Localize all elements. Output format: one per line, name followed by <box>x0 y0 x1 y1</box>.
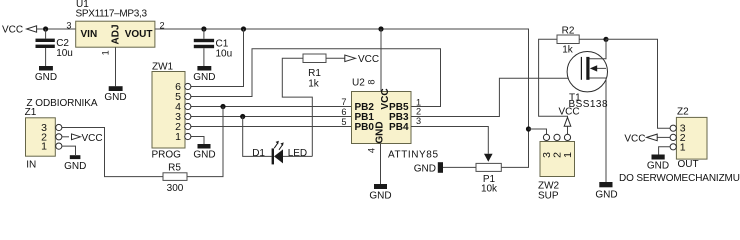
svg-text:SUP: SUP <box>538 191 559 201</box>
node ZW1 pin6 VCC junction <box>241 26 246 31</box>
svg-text:VCC: VCC <box>82 133 103 144</box>
connector ZW1 PROG <box>152 62 186 161</box>
node R5 junction <box>220 104 225 109</box>
wire R1 left lead to LED anode <box>282 58 312 156</box>
resistor R5 <box>163 163 187 195</box>
capacitor C1 <box>194 39 232 60</box>
pin circles Z1 <box>56 124 62 149</box>
svg-text:VCC: VCC <box>2 25 23 36</box>
node U2 pin8 junction <box>378 26 383 31</box>
net label VCC at U1 VIN <box>2 25 37 36</box>
svg-text:GND: GND <box>193 72 215 83</box>
wire R1 right lead <box>326 57 345 59</box>
svg-text:2: 2 <box>416 107 421 117</box>
svg-text:10u: 10u <box>216 49 233 60</box>
svg-text:GND: GND <box>35 72 57 83</box>
IC U2 ATTINY85 <box>352 78 439 161</box>
wiper arrow P1 <box>484 154 493 162</box>
net label VCC at Z2 <box>624 133 657 144</box>
wire Z2 pin1 to ground <box>659 147 671 155</box>
svg-text:R1: R1 <box>308 68 321 79</box>
svg-text:1: 1 <box>41 141 47 153</box>
ground C1 <box>193 66 215 83</box>
svg-text:R5: R5 <box>168 163 181 174</box>
wire ZW1 pin1 to ground <box>191 137 205 145</box>
pin circles Z2 <box>670 125 676 150</box>
ground T1 source <box>595 182 617 201</box>
svg-text:1k: 1k <box>562 45 574 56</box>
svg-text:BSS138: BSS138 <box>569 99 608 110</box>
svg-text:1k: 1k <box>308 79 320 90</box>
svg-text:GND: GND <box>595 190 617 201</box>
node LED junction <box>240 114 245 119</box>
svg-text:ZW1: ZW1 <box>152 62 174 73</box>
svg-text:7: 7 <box>341 97 346 107</box>
svg-text:ATTINY85: ATTINY85 <box>388 150 438 161</box>
wire R2 right lead <box>579 38 606 40</box>
svg-text:1: 1 <box>562 152 574 158</box>
svg-text:U2: U2 <box>352 78 365 89</box>
svg-text:5: 5 <box>341 117 346 127</box>
svg-text:LED: LED <box>288 148 307 159</box>
wire Z1 pin2 <box>62 136 69 138</box>
wire Z2 pin2 <box>657 136 670 138</box>
node C1 junction <box>201 26 206 31</box>
wire row ZW1 pin2 to U2 pin5 <box>191 126 352 128</box>
ground ZW1 pin1 <box>193 144 215 161</box>
ground U2 <box>369 184 391 202</box>
svg-text:1: 1 <box>175 131 181 143</box>
node T1 drain junction <box>603 37 608 42</box>
svg-text:Z1: Z1 <box>25 107 37 118</box>
ground U1 ADJ <box>104 86 126 103</box>
wire U2 pin4 to ground <box>380 144 382 185</box>
wire C1 top <box>203 29 205 39</box>
svg-text:Z ODBIORNIKA: Z ODBIORNIKA <box>27 98 98 109</box>
svg-text:8: 8 <box>367 79 377 84</box>
svg-text:3: 3 <box>66 20 71 30</box>
node C2 junction <box>43 26 48 31</box>
wire LED anode <box>283 155 312 157</box>
net label VCC at R1 <box>345 54 379 65</box>
svg-text:SPX1117–MP3,3: SPX1117–MP3,3 <box>76 8 148 19</box>
resistor R2 <box>557 26 579 56</box>
connector ZW2 SUP <box>538 142 575 202</box>
svg-text:GND: GND <box>414 164 436 175</box>
svg-text:6: 6 <box>341 107 346 117</box>
svg-text:VOUT: VOUT <box>125 29 153 40</box>
wire VCC to ZW2 pin3 <box>529 129 547 135</box>
svg-text:ADJ: ADJ <box>110 24 121 44</box>
svg-text:1: 1 <box>101 50 111 55</box>
ground Z1 <box>64 155 86 172</box>
wire C1 bottom <box>203 48 205 66</box>
wire U2 pin3 PB4 to P1 wiper <box>411 127 488 154</box>
wire drain node to Z2 pin3 <box>606 39 670 128</box>
svg-text:VCC: VCC <box>380 88 391 109</box>
svg-text:GND: GND <box>104 92 126 103</box>
pin circles ZW2 <box>543 134 570 140</box>
svg-text:D1: D1 <box>252 148 265 159</box>
svg-text:VCC: VCC <box>624 133 645 144</box>
svg-text:GND: GND <box>64 161 86 172</box>
net label VCC at Z1 <box>72 133 103 144</box>
svg-text:GND: GND <box>647 161 669 172</box>
svg-text:300: 300 <box>167 183 184 194</box>
node ZW2 pin3 junction <box>526 126 531 131</box>
svg-text:IN: IN <box>26 160 36 171</box>
svg-text:4: 4 <box>366 148 376 153</box>
svg-text:VCC: VCC <box>358 54 379 65</box>
wire VCC rail to ZW1 pin 6 <box>191 29 244 87</box>
svg-text:GND: GND <box>369 191 391 200</box>
svg-text:VIN: VIN <box>81 29 98 40</box>
wire row ZW1 pin4 to U2 pin7 <box>191 106 352 108</box>
svg-text:PB4: PB4 <box>389 122 409 133</box>
svg-text:1: 1 <box>680 141 686 153</box>
svg-text:R2: R2 <box>562 26 575 37</box>
ground P1 <box>414 162 443 174</box>
capacitor C2 <box>36 38 73 59</box>
svg-text:PROG: PROG <box>152 150 182 161</box>
wire reset net ZW1 pin5 to U2 pin1 <box>191 49 441 107</box>
svg-text:GND: GND <box>375 121 386 143</box>
wire VOUT 3.3V rail <box>155 29 529 167</box>
connector Z2 OUT <box>676 107 707 171</box>
op-amp U1 regulator SPX1117 <box>76 0 155 47</box>
wire Z1 pin3 to R5 <box>62 128 163 177</box>
pin circles ZW1 <box>185 83 191 139</box>
svg-text:3: 3 <box>416 116 421 126</box>
wire LED cathode branch <box>243 117 272 157</box>
transistor T1 BSS138 <box>567 39 608 182</box>
wire U2 pin2 PB3 to T1 gate <box>411 78 581 116</box>
svg-text:10u: 10u <box>56 48 73 59</box>
wire VCC rail to U2 pin 8 <box>380 29 382 92</box>
resistor R1 <box>303 54 326 90</box>
wire VCC arrow to U1 VIN <box>37 28 76 30</box>
potentiometer P1 <box>476 163 501 194</box>
wire P1 left to ground <box>443 166 476 168</box>
wire Z1 pin1 to ground <box>62 146 76 155</box>
wire R2 left to ZW2 pin1 <box>539 39 568 134</box>
ground C2 <box>35 66 57 83</box>
wire C2 bottom <box>45 48 47 66</box>
svg-text:OUT: OUT <box>678 159 699 170</box>
svg-text:10k: 10k <box>481 184 498 195</box>
ground Z2 <box>647 155 669 172</box>
LED D1 <box>252 141 307 165</box>
wire R5 branch <box>187 107 223 177</box>
wire U1 ADJ to ground <box>115 47 117 86</box>
wire C2 top <box>45 29 47 39</box>
connector Z1 IN <box>25 98 98 171</box>
svg-text:Z2: Z2 <box>677 107 689 118</box>
net label VCC at ZW2 <box>558 106 579 126</box>
wire row ZW1 pin3 to U2 pin6 <box>191 116 352 118</box>
svg-text:GND: GND <box>193 150 215 161</box>
svg-text:DO SERWOMECHANIZMU: DO SERWOMECHANIZMU <box>619 173 740 184</box>
svg-text:PB0: PB0 <box>355 122 375 133</box>
